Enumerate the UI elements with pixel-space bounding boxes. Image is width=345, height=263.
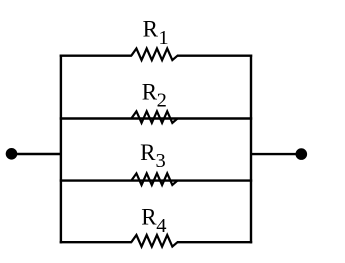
resistor R3 (131, 173, 177, 185)
resistor R4 (131, 235, 177, 247)
wire (left vertical bus) (60, 55, 62, 244)
wire (right bus to right terminal) (250, 153, 301, 155)
wire (right vertical bus) (250, 55, 252, 244)
svg-text:2: 2 (157, 89, 167, 111)
svg-text:R: R (141, 205, 157, 230)
resistor R1 (131, 49, 177, 61)
wire (left terminal to left bus) (12, 153, 63, 155)
svg-text:1: 1 (158, 27, 168, 49)
right terminal node (296, 148, 308, 160)
resistor R2 (131, 111, 177, 123)
svg-text:R: R (142, 80, 158, 105)
wire (branch 4 left segment) (60, 241, 132, 243)
left terminal node (6, 148, 18, 160)
svg-text:4: 4 (156, 215, 166, 237)
svg-text:R: R (140, 140, 156, 165)
wire (branch 4 right segment) (177, 241, 252, 243)
svg-text:3: 3 (156, 150, 166, 172)
wire (branch 3, continuous through resistor) (60, 179, 253, 181)
wire (branch 2, continuous through resistor) (60, 117, 253, 119)
svg-text:R: R (143, 17, 159, 42)
wire (branch 1 left segment) (60, 55, 132, 57)
wire (branch 1 right segment) (177, 55, 252, 57)
